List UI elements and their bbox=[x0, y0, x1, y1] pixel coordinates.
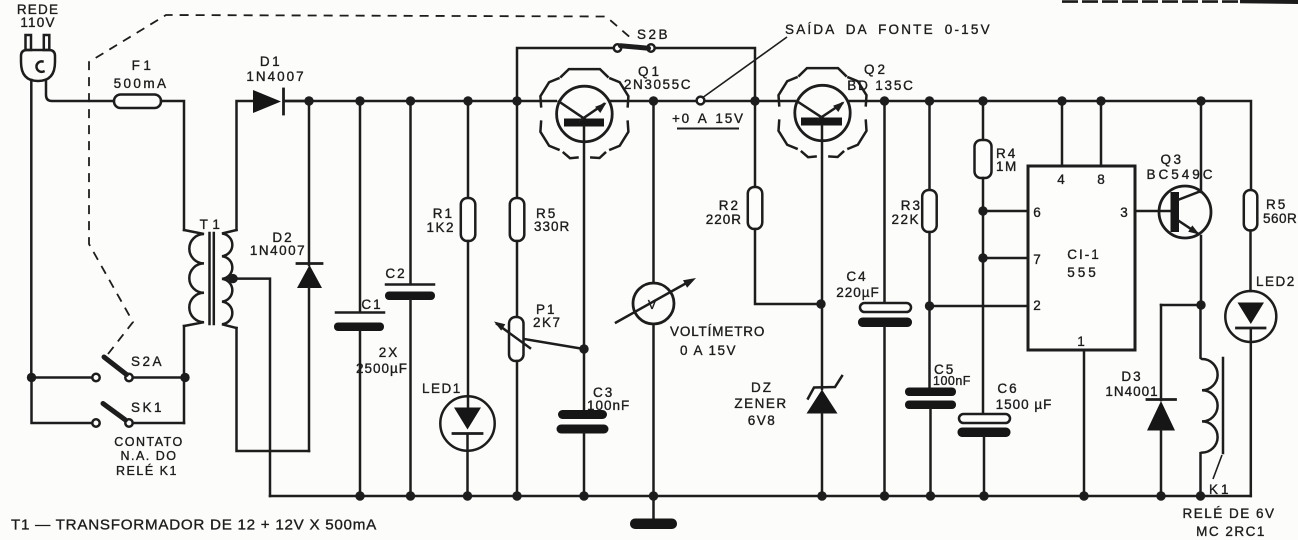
label CONTATO N.A. DO RELE K1 bbox=[114, 435, 184, 478]
mains plug bbox=[21, 35, 55, 81]
label RELE DE 6V MC2RC1 bbox=[1182, 506, 1275, 539]
node S2A left bbox=[27, 373, 36, 382]
svg-text:500mA: 500mA bbox=[114, 76, 169, 91]
label C2 bbox=[385, 266, 406, 281]
node R3 pin2 junction bbox=[925, 301, 934, 310]
dashed linkage S2A to S2B bbox=[89, 15, 632, 354]
node S2A right / T1 primary bbox=[180, 373, 189, 382]
wire bottom ground bus bbox=[270, 495, 1251, 498]
label REDE 110V bbox=[17, 2, 59, 30]
svg-text:RELÉ K1: RELÉ K1 bbox=[116, 463, 178, 478]
label C5 100nF bbox=[933, 362, 971, 388]
svg-text:110V: 110V bbox=[20, 15, 55, 30]
node pin7 junction bbox=[978, 253, 987, 262]
voltmeter V bbox=[616, 278, 696, 324]
zener diode DZ bbox=[807, 376, 843, 496]
LED2 bbox=[1225, 291, 1276, 496]
label DZ ZENER 6V8 bbox=[734, 380, 787, 428]
svg-text:4: 4 bbox=[1057, 172, 1065, 187]
svg-text:R2: R2 bbox=[719, 198, 740, 213]
label SAIDA DA FONTE 0-15V bbox=[785, 22, 992, 37]
svg-text:C6: C6 bbox=[997, 381, 1018, 396]
svg-text:+0 A 15V: +0 A 15V bbox=[672, 111, 745, 126]
svg-text:R1: R1 bbox=[433, 206, 454, 221]
pointer line to SAIDA label bbox=[704, 37, 788, 97]
resistor R2 bbox=[748, 101, 816, 304]
label R5 330R bbox=[534, 206, 570, 234]
label VOLTIMETRO 0 A 15V bbox=[670, 324, 765, 358]
transistor Q1 2N3055 with heatsink bbox=[540, 69, 628, 158]
wire bus to voltmeter bbox=[652, 101, 655, 283]
svg-text:1500 µF: 1500 µF bbox=[996, 397, 1053, 412]
svg-text:LED2: LED2 bbox=[1256, 274, 1296, 289]
wire S2B to bus at R2 bbox=[655, 48, 755, 101]
svg-text:MC 2RC1: MC 2RC1 bbox=[1196, 524, 1266, 539]
svg-text:SAÍDA DA FONTE 0-15V: SAÍDA DA FONTE 0-15V bbox=[785, 22, 992, 37]
node pin6 junction bbox=[978, 206, 987, 215]
label F1 500mA bbox=[114, 58, 169, 91]
wire Q2 base down to zener bbox=[821, 126, 824, 390]
node output terminal bbox=[697, 97, 705, 105]
resistor R5 560R bbox=[1244, 190, 1258, 291]
svg-text:3: 3 bbox=[1120, 205, 1128, 220]
svg-text:Q3: Q3 bbox=[1160, 152, 1183, 167]
svg-text:1M: 1M bbox=[996, 159, 1018, 174]
wire T1 secondary top to D1 bbox=[237, 101, 254, 230]
wire fuse to T1 primary bbox=[161, 101, 184, 230]
svg-text:F1: F1 bbox=[132, 58, 155, 73]
label 2X 2500uF bbox=[356, 345, 408, 376]
pin 2 wire bbox=[930, 298, 1041, 313]
svg-text:CONTATO: CONTATO bbox=[114, 435, 184, 449]
node R2 zener junction bbox=[816, 299, 825, 308]
svg-text:6: 6 bbox=[1033, 205, 1041, 220]
svg-text:2500µF: 2500µF bbox=[356, 361, 408, 376]
wire plug to fuse bbox=[46, 80, 114, 101]
label R1 1K2 bbox=[426, 206, 455, 235]
svg-text:0 A 15V: 0 A 15V bbox=[680, 343, 737, 358]
diode D2 bbox=[297, 101, 322, 451]
svg-text:SK1: SK1 bbox=[131, 400, 164, 415]
svg-text:CI-1: CI-1 bbox=[1067, 247, 1101, 262]
pin 4 wire bbox=[1057, 101, 1065, 187]
svg-text:BD 135C: BD 135C bbox=[847, 78, 914, 93]
svg-text:6V8: 6V8 bbox=[748, 413, 777, 428]
pin 6 wire bbox=[983, 205, 1041, 220]
label P1 2K7 bbox=[533, 302, 562, 330]
ground symbol bbox=[630, 519, 677, 530]
LED1 bbox=[440, 396, 494, 496]
wire T1 secondary bottom to D2 bbox=[237, 328, 310, 451]
label C3 100nF bbox=[587, 385, 630, 413]
label R3 22K bbox=[891, 198, 922, 227]
svg-text:1: 1 bbox=[1077, 334, 1085, 349]
switch S2A bbox=[32, 357, 185, 381]
svg-text:DZ: DZ bbox=[751, 380, 773, 395]
resistor R1 bbox=[461, 101, 476, 407]
label LED2 bbox=[1256, 274, 1296, 289]
svg-text:ZENER: ZENER bbox=[734, 396, 787, 411]
label R4 1M bbox=[996, 146, 1018, 174]
svg-text:S2B: S2B bbox=[637, 27, 670, 42]
svg-text:LED1: LED1 bbox=[422, 381, 462, 396]
wire bus to S2B bbox=[517, 48, 614, 101]
capacitor C4 bbox=[858, 101, 912, 496]
svg-text:T1: T1 bbox=[200, 217, 225, 232]
potentiometer P1 bbox=[494, 317, 530, 496]
svg-text:V: V bbox=[648, 298, 657, 312]
switch SK1 bbox=[32, 378, 185, 427]
svg-text:1K2: 1K2 bbox=[426, 220, 455, 235]
resistor R5 330R bbox=[510, 101, 525, 317]
capacitor C3 bbox=[557, 410, 609, 496]
svg-text:BC549C: BC549C bbox=[1146, 167, 1215, 182]
label R2 220R bbox=[706, 198, 742, 227]
svg-text:22K: 22K bbox=[891, 212, 920, 227]
svg-text:N.A. DO: N.A. DO bbox=[120, 449, 177, 463]
wire T1 center tap to ground bus bbox=[226, 279, 270, 496]
pin 3 wire bbox=[1120, 205, 1171, 220]
svg-text:C4: C4 bbox=[846, 269, 867, 284]
label Q3 BC549C bbox=[1146, 152, 1215, 182]
pin 1 wire bbox=[1077, 334, 1085, 496]
svg-text:7: 7 bbox=[1033, 252, 1041, 267]
svg-text:2X: 2X bbox=[379, 345, 400, 360]
label Q2 BD135C bbox=[847, 62, 914, 93]
capacitor C5 bbox=[905, 388, 956, 497]
svg-text:220µF: 220µF bbox=[836, 285, 880, 300]
switch S2B bbox=[614, 44, 655, 51]
capacitor C2 bbox=[385, 101, 435, 496]
svg-text:2K7: 2K7 bbox=[533, 315, 562, 330]
label S2B bbox=[637, 27, 670, 42]
wire main positive bus bbox=[284, 101, 1251, 190]
wire plug cord to left rail bbox=[30, 80, 33, 378]
svg-text:100nF: 100nF bbox=[587, 398, 630, 413]
label T1 bbox=[200, 217, 225, 232]
wire P1 wiper to Q1 base bbox=[524, 339, 584, 349]
wire bus to Q3 collector bbox=[1200, 101, 1203, 192]
svg-text:R3: R3 bbox=[901, 198, 922, 213]
svg-text:T1 — TRANSFORMADOR DE 12 +: T1 — TRANSFORMADOR DE 12 + 12V X 500mA bbox=[11, 517, 377, 534]
label C4 220uF bbox=[836, 269, 880, 300]
label D1 1N4007 bbox=[246, 54, 305, 84]
node Q1 base / P1 wiper bbox=[579, 344, 588, 353]
label D3 1N4001 bbox=[1105, 369, 1158, 399]
label R5 560R bbox=[1263, 197, 1297, 226]
relay K1 coil bbox=[1201, 305, 1224, 496]
transistor Q2 BD135 with heatsink bbox=[779, 68, 867, 157]
capacitor C6 bbox=[958, 414, 1011, 496]
svg-text:2: 2 bbox=[1033, 298, 1041, 313]
diode D3 bbox=[1147, 305, 1176, 496]
diode D1 bbox=[253, 89, 309, 114]
svg-text:D3: D3 bbox=[1121, 369, 1142, 384]
wire Q1 base down bbox=[583, 127, 586, 411]
pin 7 wire bbox=[983, 252, 1041, 267]
svg-text:2N3055C: 2N3055C bbox=[624, 77, 692, 92]
svg-text:C2: C2 bbox=[385, 266, 406, 281]
svg-text:560R: 560R bbox=[1263, 211, 1297, 226]
fuse F1 bbox=[114, 95, 161, 109]
op-amp/IC CI-1 555 bbox=[1028, 166, 1135, 350]
label S2A bbox=[131, 354, 164, 369]
resistor R3 bbox=[922, 101, 937, 388]
pin 8 wire bbox=[1097, 101, 1105, 187]
svg-text:R5: R5 bbox=[1266, 197, 1287, 212]
wire T1 primary bottom to switches bbox=[183, 326, 186, 423]
label K1 bbox=[1209, 482, 1232, 497]
label D2 1N4007 bbox=[250, 230, 306, 258]
svg-text:Q2: Q2 bbox=[864, 62, 888, 77]
svg-text:VOLTÍMETRO: VOLTÍMETRO bbox=[670, 324, 765, 339]
svg-text:1N4007: 1N4007 bbox=[250, 243, 306, 258]
caption T1 transformer spec bbox=[11, 517, 377, 534]
transformer T1 bbox=[184, 230, 237, 328]
label C1 bbox=[361, 297, 382, 312]
label LED1 bbox=[422, 381, 462, 396]
node junctions bottom bus bbox=[355, 491, 1205, 500]
svg-text:555: 555 bbox=[1067, 265, 1099, 280]
svg-text:100nF: 100nF bbox=[933, 374, 971, 388]
capacitor C1 bbox=[334, 101, 384, 496]
svg-text:1N4007: 1N4007 bbox=[246, 69, 305, 84]
resistor R4 bbox=[975, 101, 992, 414]
svg-text:S2A: S2A bbox=[131, 354, 164, 369]
node center tap bbox=[228, 274, 237, 283]
svg-text:8: 8 bbox=[1097, 172, 1105, 187]
node junctions top bus bbox=[304, 96, 1205, 105]
wire voltmeter to ground bbox=[652, 324, 655, 518]
svg-text:C1: C1 bbox=[361, 297, 382, 312]
label +0 A 15V bbox=[672, 111, 745, 129]
node Q3 emitter / D3 / relay junction bbox=[1196, 300, 1205, 309]
svg-text:RELÉ DE 6V: RELÉ DE 6V bbox=[1182, 506, 1275, 521]
wire junction to D3 bbox=[1161, 304, 1201, 307]
svg-text:D1: D1 bbox=[260, 54, 282, 69]
label Q1 2N3055C bbox=[624, 64, 692, 92]
label C6 1500uF bbox=[996, 381, 1053, 412]
svg-text:1N4001: 1N4001 bbox=[1105, 384, 1158, 399]
transistor Q3 BC549C bbox=[1159, 186, 1211, 305]
svg-text:330R: 330R bbox=[534, 219, 570, 234]
svg-text:220R: 220R bbox=[706, 212, 742, 227]
label SK1 bbox=[131, 400, 164, 415]
